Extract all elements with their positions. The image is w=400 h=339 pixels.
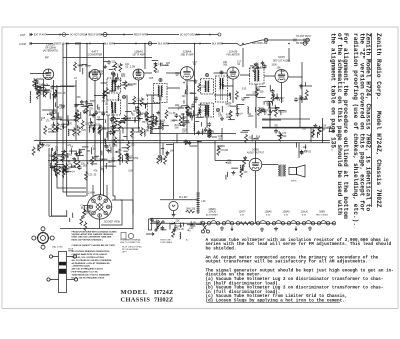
svg-text:12AU6: 12AU6 — [208, 211, 216, 214]
ant line end terminal — [218, 33, 221, 36]
instruction underline — [207, 301, 340, 303]
svg-text:.005: .005 — [47, 129, 52, 131]
svg-text:SPKR: SPKR — [291, 181, 297, 183]
svg-text:C17 .02: C17 .02 — [61, 169, 70, 171]
junction — [279, 99, 280, 100]
heater dropping resistor — [239, 222, 251, 225]
wire stub — [134, 119, 136, 122]
svg-text:2.2M: 2.2M — [53, 170, 58, 172]
wire stub — [240, 131, 248, 133]
svg-text:C31 .05: C31 .05 — [88, 175, 97, 177]
wire stub — [312, 130, 314, 136]
wire stub — [80, 112, 82, 118]
svg-text:C4 .01: C4 .01 — [117, 140, 124, 142]
svg-text:C28 5: C28 5 — [59, 160, 66, 162]
resistor — [83, 209, 86, 218]
resistor — [54, 163, 57, 172]
ground — [275, 96, 279, 100]
wire — [128, 103, 160, 105]
wire — [49, 215, 67, 217]
coil — [153, 114, 154, 121]
coil — [56, 90, 57, 97]
wire stub — [257, 96, 265, 98]
wire stub — [110, 147, 112, 153]
resistor — [77, 113, 80, 122]
svg-text:ANT OSC IF FREQUENCY 455 KC: ANT OSC IF FREQUENCY 455 KC — [72, 268, 104, 271]
wire — [52, 215, 67, 217]
wire stub — [46, 89, 50, 91]
wire — [30, 73, 48, 75]
resistor — [105, 88, 108, 97]
svg-text:220K: 220K — [248, 116, 254, 118]
capacitor — [271, 89, 275, 94]
capacitor — [101, 112, 105, 117]
ground — [299, 84, 303, 88]
ground — [84, 100, 88, 104]
svg-text:2.2M: 2.2M — [154, 121, 159, 123]
capacitor — [61, 104, 65, 109]
resistor — [318, 126, 321, 135]
wire stub — [110, 101, 112, 108]
wire stub — [112, 65, 115, 67]
coil — [247, 107, 248, 114]
wire stub — [229, 93, 231, 97]
resistor — [77, 160, 80, 169]
tube V7 — [249, 158, 262, 171]
wire — [36, 78, 44, 80]
resistor — [61, 153, 64, 162]
pilot lamp PL1 — [169, 201, 178, 213]
wire stub — [195, 120, 199, 122]
resistor — [52, 123, 55, 132]
capacitor — [187, 141, 191, 146]
alignment trimmer mark — [220, 71, 223, 74]
resistor — [207, 128, 210, 137]
wire — [262, 127, 330, 129]
ground — [172, 213, 176, 217]
wire stub — [94, 155, 99, 157]
wire stub — [121, 117, 125, 119]
svg-text:5-25: 5-25 — [95, 124, 100, 126]
svg-text:R5 220K: R5 220K — [278, 111, 287, 113]
wire — [214, 72, 228, 74]
coil — [240, 165, 241, 172]
svg-text:SOCKET VIEW: SOCKET VIEW — [104, 222, 121, 224]
pointer band 1 — [59, 262, 66, 266]
svg-text:2ND IF AMP: 2ND IF AMP — [181, 54, 194, 57]
svg-text:3.3K: 3.3K — [56, 156, 61, 158]
svg-text:15K: 15K — [108, 162, 113, 164]
wire — [221, 128, 223, 141]
wire stub — [155, 120, 157, 125]
wire stub — [255, 107, 257, 112]
heading underline — [371, 33, 373, 207]
svg-text:.001: .001 — [57, 117, 62, 119]
resistor — [243, 158, 246, 167]
svg-text:330K: 330K — [49, 156, 55, 158]
capacitor — [80, 100, 84, 105]
wire stub — [90, 124, 96, 126]
interlock plug — [203, 225, 207, 230]
wire — [194, 44, 196, 136]
resistor — [137, 109, 140, 118]
svg-text:H724Z: H724Z — [154, 289, 173, 296]
svg-text:RF: RF — [45, 56, 49, 60]
wire stub — [90, 100, 95, 102]
resistor — [165, 110, 168, 119]
resistor — [99, 124, 102, 133]
ground — [103, 65, 107, 69]
wire — [222, 85, 233, 87]
junction — [192, 116, 193, 117]
svg-text:EXT IF ANT: EXT IF ANT — [34, 34, 47, 37]
svg-text:15K: 15K — [201, 86, 206, 88]
loop line terminal — [30, 42, 32, 45]
wire stub — [198, 104, 205, 106]
capacitor — [185, 140, 189, 145]
resistor — [55, 168, 58, 177]
wire stub — [152, 59, 159, 61]
wire stub — [191, 115, 193, 121]
resistor — [36, 85, 39, 94]
resistor — [32, 146, 35, 155]
wire stub — [251, 135, 253, 142]
wire — [173, 143, 175, 199]
resistor — [85, 105, 88, 114]
svg-text:DO NOT GROUND: DO NOT GROUND — [180, 35, 200, 37]
wire stub — [144, 113, 146, 118]
alignment trimmer mark — [255, 63, 258, 66]
wire stub — [103, 91, 105, 97]
resistor — [74, 159, 77, 168]
IF transformer T1B — [107, 100, 121, 115]
wire stub — [112, 125, 116, 127]
wire — [132, 128, 134, 230]
dial cord sketch pulley — [128, 233, 133, 238]
svg-text:RED IF WIRE: RED IF WIRE — [134, 35, 149, 37]
svg-text:PL1 #47: PL1 #47 — [179, 197, 188, 199]
wire — [160, 199, 198, 201]
resistor — [80, 216, 83, 225]
svg-text:.005: .005 — [68, 155, 73, 157]
svg-text:15K: 15K — [40, 94, 45, 96]
FM dipole branch wire — [240, 40, 310, 46]
wire stub — [103, 92, 105, 97]
wire — [89, 71, 100, 73]
wire stub — [185, 106, 190, 108]
resistor — [76, 109, 79, 118]
wire — [206, 103, 208, 128]
resistor — [151, 121, 154, 130]
wire stub — [54, 172, 56, 175]
resistor — [130, 128, 133, 137]
svg-text:1M: 1M — [182, 132, 185, 134]
svg-text:R21 56K: R21 56K — [94, 160, 103, 162]
svg-text:15K: 15K — [161, 120, 166, 122]
wire stub — [190, 221, 192, 225]
splice mark — [199, 43, 201, 45]
svg-text:C9 220: C9 220 — [221, 150, 229, 152]
tube V4 — [180, 67, 193, 80]
wire stub — [147, 123, 152, 125]
heater hump wires — [210, 221, 216, 224]
wire stub — [106, 132, 108, 138]
wire stub — [329, 128, 331, 132]
wire — [98, 127, 140, 129]
svg-text:CHASSIS: CHASSIS — [121, 297, 151, 304]
wire — [86, 44, 88, 189]
wire — [159, 95, 161, 160]
capacitor — [236, 112, 240, 117]
ground — [115, 77, 119, 81]
resistor — [119, 63, 122, 72]
wire — [56, 85, 58, 161]
ant line coupling capacitor — [103, 33, 107, 37]
dipole terminal — [306, 38, 310, 42]
svg-text:C28 5: C28 5 — [109, 91, 116, 93]
ground — [34, 79, 38, 83]
wire — [310, 128, 312, 142]
svg-text:2.2M: 2.2M — [280, 71, 285, 73]
svg-text:Zenith Radio Corp. Model H72: Zenith Radio Corp. Model H724Z, Chassis … — [375, 33, 382, 208]
lug eyelet — [73, 255, 76, 258]
wire stub — [51, 124, 54, 126]
svg-text:6AT7: 6AT7 — [92, 50, 99, 54]
wire stub — [305, 144, 307, 149]
wire stub — [67, 153, 69, 158]
wire stub — [273, 95, 275, 100]
wire — [288, 76, 302, 78]
wire stub — [171, 223, 175, 225]
wire stub — [54, 166, 58, 168]
wire — [298, 143, 300, 158]
wire stub — [189, 80, 195, 82]
svg-text:15K: 15K — [193, 102, 198, 104]
wire stub — [187, 224, 195, 226]
ant line insulator — [62, 33, 66, 37]
wire stub — [113, 130, 119, 132]
svg-text:117 V. AC. VOL CONTROL AT MAX.: 117 V. AC. VOL CONTROL AT MAX. — [72, 256, 105, 259]
junction — [317, 132, 318, 133]
capacitor — [109, 130, 113, 135]
svg-text:330K: 330K — [272, 65, 278, 67]
coil — [210, 130, 211, 137]
svg-text:PAGE 134 FOR RUN CHANGES.): PAGE 134 FOR RUN CHANGES.) — [72, 238, 103, 241]
wire — [100, 130, 102, 195]
ground — [269, 110, 273, 114]
wire stub — [72, 213, 74, 218]
resistor — [112, 126, 115, 135]
wire stub — [71, 164, 73, 168]
wire stub — [166, 151, 168, 156]
capacitor — [194, 96, 198, 101]
wire stub — [265, 100, 272, 102]
ground — [313, 124, 317, 128]
wire stub — [98, 107, 100, 110]
wire stub — [49, 113, 53, 115]
wire stub — [149, 120, 153, 122]
splice mark — [89, 43, 91, 45]
wire stub — [121, 159, 123, 162]
wire stub — [228, 119, 235, 121]
wire stub — [126, 153, 128, 157]
coil — [180, 232, 181, 239]
wire stub — [277, 135, 283, 137]
wire stub — [70, 148, 72, 154]
wire — [126, 95, 128, 141]
wire — [43, 79, 45, 97]
tube V1 — [43, 69, 54, 80]
wire stub — [87, 150, 91, 152]
resistor — [133, 96, 136, 105]
ground — [274, 227, 278, 231]
wire stub — [92, 163, 97, 165]
resistor — [85, 171, 88, 180]
svg-text:6.3V: 6.3V — [284, 214, 289, 216]
wire — [168, 107, 184, 109]
svg-text:CHASSIS BASE WITH VTVM. LINE A: CHASSIS BASE WITH VTVM. LINE AT — [72, 253, 108, 256]
wire stub — [77, 156, 79, 160]
resistor — [198, 83, 201, 92]
resistor — [229, 110, 232, 119]
svg-text:330K: 330K — [114, 152, 120, 154]
wire stub — [105, 165, 107, 169]
tube V2 — [90, 70, 101, 81]
capacitor — [52, 116, 56, 121]
resistor — [157, 220, 160, 229]
junction — [226, 162, 227, 163]
svg-text:the alignment table on page 13: the alignment table on page 135. — [329, 33, 336, 152]
wire stub — [142, 121, 145, 123]
wire — [94, 95, 106, 97]
wire stub — [197, 131, 200, 133]
wire stub — [97, 104, 99, 109]
wire stub — [103, 61, 107, 63]
dial cord sketch bracket — [121, 233, 126, 240]
resistor — [253, 64, 256, 73]
wire stub — [67, 115, 69, 122]
resistor — [84, 222, 87, 231]
svg-text:C31 .05: C31 .05 — [58, 93, 67, 95]
svg-text:12AU6: 12AU6 — [300, 211, 308, 214]
wire — [150, 218, 215, 220]
wire — [215, 160, 249, 162]
wire — [322, 118, 324, 143]
wire stub — [183, 223, 185, 227]
resistor — [44, 88, 47, 97]
output transformer T6 — [278, 165, 286, 177]
svg-text:RED IF WIRE: RED IF WIRE — [88, 35, 103, 37]
wire stub — [182, 122, 190, 124]
svg-text:12AU6: 12AU6 — [46, 43, 55, 47]
wire stub — [96, 118, 104, 120]
speaker — [289, 168, 297, 175]
wire stub — [51, 148, 53, 151]
svg-text:DIAL CORD: DIAL CORD — [52, 246, 63, 249]
resistor — [73, 127, 76, 136]
resistor — [58, 166, 61, 175]
capacitor — [75, 152, 79, 157]
junction — [60, 128, 61, 129]
resistor — [275, 108, 278, 117]
svg-text:.001: .001 — [82, 165, 87, 167]
wire stub — [180, 125, 184, 127]
wire stub — [153, 221, 158, 223]
svg-text:50B5: 50B5 — [319, 211, 325, 214]
svg-text:R40 150: R40 150 — [187, 208, 196, 210]
wire stub — [274, 105, 276, 110]
junction — [192, 224, 193, 225]
svg-text:2.2M: 2.2M — [92, 157, 97, 159]
wire stub — [160, 120, 162, 126]
wire — [246, 94, 258, 96]
svg-text:220K: 220K — [86, 211, 92, 213]
capacitor — [208, 122, 212, 127]
coil — [118, 94, 119, 101]
wire stub — [75, 153, 77, 157]
svg-text:6AT6: 6AT6 — [278, 55, 285, 59]
lug eyelet — [74, 278, 77, 281]
ground — [89, 121, 93, 125]
resistor — [65, 163, 68, 172]
svg-text:LINE TO CONNECTOR: LINE TO CONNECTOR — [120, 242, 141, 244]
wire stub — [190, 145, 198, 147]
wire — [301, 62, 303, 103]
svg-text:RECT 35W4: RECT 35W4 — [316, 214, 328, 216]
ground — [137, 117, 141, 121]
IF transformer T4 DISC — [216, 76, 228, 102]
loop trimmer — [148, 42, 152, 46]
splice mark — [59, 34, 61, 36]
junction — [187, 230, 188, 231]
wire stub — [112, 75, 114, 82]
IF transformer T5 RATIO — [250, 68, 265, 84]
svg-text:TUNE RANGE 540 / 1600 KC STAN: TUNE RANGE 540 / 1600 KC STANDARD — [72, 274, 111, 277]
capacitor — [191, 103, 195, 108]
wire stub — [116, 73, 118, 77]
junction — [59, 170, 60, 171]
resistor — [54, 89, 57, 98]
resistor — [244, 134, 247, 143]
wire stub — [192, 110, 194, 116]
svg-text:MODEL: MODEL — [121, 289, 148, 296]
heater pins — [201, 222, 204, 225]
resistor — [56, 123, 59, 132]
tube V3 — [133, 69, 144, 80]
wire stub — [52, 94, 57, 96]
ground — [112, 131, 116, 135]
svg-text:1M: 1M — [49, 112, 52, 114]
resistor — [51, 111, 54, 120]
coil — [68, 129, 69, 136]
alignment trimmer mark — [216, 108, 219, 111]
wire stub — [82, 68, 84, 74]
svg-text:12BA6: 12BA6 — [134, 50, 143, 54]
svg-text:220K: 220K — [59, 107, 65, 109]
svg-text:FM IF FREQUENCY 10.7 MC: FM IF FREQUENCY 10.7 MC — [72, 272, 99, 274]
svg-text:56K: 56K — [223, 64, 228, 66]
wire stub — [61, 123, 69, 125]
svg-text:CODES IN CAPACITY VALUES BELOW: CODES IN CAPACITY VALUES BELOW 1 MFD. — [72, 244, 116, 247]
wire stub — [217, 145, 225, 147]
resistor — [114, 119, 117, 128]
wire stub — [82, 146, 89, 148]
wire stub — [101, 151, 103, 156]
wire — [86, 188, 88, 196]
wire stub — [63, 123, 65, 129]
wire stub — [109, 165, 116, 167]
coil — [193, 124, 194, 131]
